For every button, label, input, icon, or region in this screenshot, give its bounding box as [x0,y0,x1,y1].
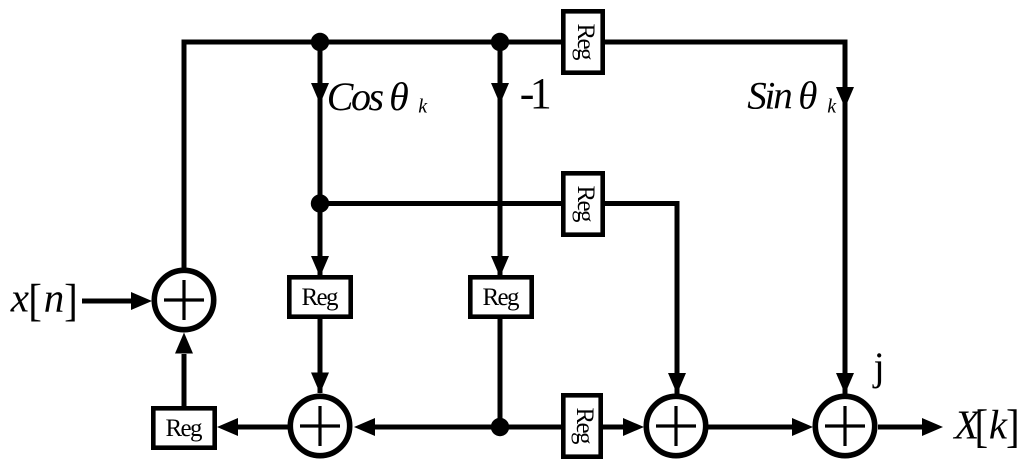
svg-text:]: ] [1006,401,1020,453]
svg-text:Reg: Reg [572,186,599,224]
svg-text:Reg: Reg [483,284,521,311]
arrowhead into adder U1 [131,292,152,310]
wire node N4 into Reg R6 [500,425,565,430]
wire adder U4 to output X[k] [878,425,922,430]
svg-text:]: ] [64,276,78,326]
arrow down on -1 branch [491,83,509,104]
adder U3 (real part) [646,396,705,455]
wire top horizontal bus [182,40,846,45]
register R4 (right column) [470,277,531,316]
arrow into Reg R3 [311,256,329,277]
svg-text:Reg: Reg [302,284,340,311]
register R1 (top, vertical) [563,11,602,72]
svg-text:k: k [418,96,428,118]
wire left vertical from adder U1 up to top bus [182,40,187,270]
arrow down on sin branch [836,87,854,108]
wire -1 branch vertical x=500 upper [498,42,503,277]
label Cos theta k [327,74,428,119]
wire cos branch vertical x=320 [318,42,323,276]
svg-text:k: k [827,96,837,118]
register R3 (middle column) [289,277,350,316]
register R6 (bottom, vertical) [563,395,600,456]
wire sin branch vertical x=845 [843,40,848,395]
label x[n] input [10,275,78,327]
wire middle horizontal y=203 [320,201,677,206]
arrow into adder U4 [836,373,854,394]
svg-text:Reg: Reg [572,24,599,62]
node N2 junction dot top-right [491,33,509,51]
arrow into adder U4 from adder U3 [792,418,813,436]
svg-text:j: j [872,344,885,389]
arrowhead output X[k] [922,418,943,436]
wire adder U2 to Reg R5 [238,425,288,430]
svg-text:Reg: Reg [571,408,598,446]
node N4 junction dot bottom [491,418,509,436]
wire below Reg R4 down to bottom bus [498,317,503,427]
adder U4 (output, imaginary j) [815,396,874,455]
svg-text:x: x [10,275,29,321]
svg-text:Sin θ: Sin θ [747,74,817,117]
svg-text:-1: -1 [520,69,552,118]
svg-text:n: n [44,275,65,321]
arrow into adder U3 [668,373,686,394]
svg-text:Reg: Reg [166,415,204,442]
wire adder U3 to adder U4 [708,425,793,430]
arrow down on cos branch [311,83,329,104]
wire Reg R6 to adder U3 [601,425,623,430]
register R2 (middle, vertical) [563,173,602,234]
arrow up into adder U1 [175,333,193,354]
arrow into adder U2 [311,373,329,394]
wire node N4 to adder U2 [375,425,500,430]
label Sin theta k [747,74,837,117]
svg-text:[: [ [975,401,989,453]
wire right vertical x=677 down to adder U3 [675,201,680,394]
wire from Reg R3 down to adder U2 [318,317,323,393]
arrow left into Reg R5 [217,418,238,436]
label X[k] output [952,401,1019,453]
node N3 junction dot middle [311,194,329,212]
arrow into adder U3 from Reg R6 [623,418,644,436]
node N1 junction dot top-left [311,33,329,51]
adder U1 (input accumulator) [154,270,213,329]
svg-text:[: [ [28,276,42,326]
adder U2 (bottom left) [290,396,349,455]
svg-text:Cos θ: Cos θ [327,74,409,119]
wire input x[n] arrow [82,299,132,304]
wire feedback Reg R5 up to adder U1 [182,354,187,406]
arrow left into adder U2 [354,418,375,436]
arrow into Reg R4 [491,256,509,277]
register R5 (bottom-left feedback) [153,408,214,447]
